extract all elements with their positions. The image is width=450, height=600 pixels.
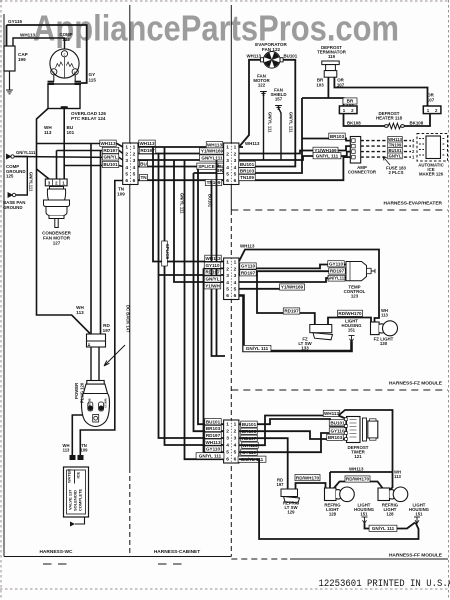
wire riser [216, 160, 218, 356]
svg-text:BU101: BU101 [206, 419, 221, 424]
svg-text:3: 3 [226, 436, 229, 442]
svg-text:4: 4 [234, 165, 237, 171]
wire Y1/WH169 FZ pin5 [239, 288, 303, 290]
svg-text:BR103: BR103 [316, 78, 324, 88]
section divider HARNESS-WC / HARNESS-CABINET [129, 5, 131, 468]
svg-text:WH113: WH113 [324, 411, 340, 416]
svg-text:4: 4 [234, 443, 237, 449]
svg-text:RD197: RD197 [241, 270, 256, 275]
wire BU101 relay down [63, 109, 65, 179]
label BR [216, 167, 223, 173]
ground (light housing 2) [414, 517, 420, 524]
label GY110 (pin2) [240, 263, 256, 269]
svg-text:COMPLETE: COMPLETE [78, 488, 83, 511]
wire BU101 to connector pin 4 [64, 166, 123, 167]
svg-text:TN109: TN109 [389, 142, 402, 147]
svg-text:5: 5 [226, 450, 229, 456]
label GN/YL [204, 276, 220, 282]
svg-text:WH113: WH113 [139, 141, 155, 146]
connector J2 (cabinet/evap) 6-pin [224, 143, 239, 185]
svg-text:3: 3 [234, 436, 237, 442]
wire RD197 FZ pin3 to temp control [239, 271, 346, 275]
label RD/WH170 [295, 475, 320, 481]
svg-text:1: 1 [226, 145, 229, 151]
label RD197 (pin3) [240, 270, 256, 276]
condenser fan motor 127 body [44, 187, 70, 228]
wire WH113 tap to water valve [72, 415, 91, 455]
label BR103 (pin2) [241, 428, 257, 434]
svg-text:3: 3 [226, 158, 229, 164]
svg-text:GN/YL111: GN/YL111 [201, 156, 223, 161]
wire BK108 heater right lead [404, 114, 430, 126]
label Y1/WH169 [279, 284, 304, 290]
svg-text:TN109: TN109 [117, 187, 125, 197]
wire BR103 from terminator [327, 77, 329, 98]
label Y1/WH [204, 283, 220, 289]
svg-text:GY110: GY110 [330, 429, 344, 434]
wire RD/WH170 light1 to light2 [334, 482, 383, 489]
svg-text:GN/YL 111: GN/YL 111 [246, 346, 269, 351]
wire TN109 connector1 pin6 to water valve [80, 181, 123, 456]
wire GN/YL111 riser to FF pin6 [185, 160, 226, 459]
wire GN/YL111 FZ pin6 to housing ground [239, 296, 352, 352]
label GN/YL 111 [243, 345, 271, 351]
relay bottom terminal [61, 106, 68, 109]
svg-text:GY110: GY110 [206, 447, 220, 452]
wire WH113 drop to power terminal box [90, 144, 92, 335]
svg-text:ICE: ICE [76, 472, 81, 479]
svg-text:5: 5 [133, 172, 136, 178]
refrig light switch 129 [281, 489, 300, 503]
svg-text:2: 2 [133, 151, 136, 157]
capacitor CAP 199 [4, 46, 15, 71]
svg-text:RD197: RD197 [277, 478, 285, 488]
svg-text:SPLICE: SPLICE [165, 244, 170, 259]
ground (fan shield) [275, 106, 282, 110]
svg-text:C: C [311, 327, 314, 332]
svg-text:M: M [74, 71, 76, 75]
relay terminal right [75, 82, 82, 84]
wire WH113 FZ pin1 to FZ light [239, 250, 379, 323]
svg-text:DEFROSTHEATER 118: DEFROSTHEATER 118 [376, 111, 403, 121]
svg-text:HARNESS-FF MODULE: HARNESS-FF MODULE [389, 553, 443, 559]
resistor defrost heater 118 [384, 123, 404, 129]
wire WH113 riser to FZ pin1 [153, 147, 225, 262]
wire GN/YL111 to AMP connector [239, 152, 350, 160]
svg-text:2: 2 [125, 151, 128, 157]
wire RD197 riser [159, 154, 226, 439]
compressor COMP 123 [50, 49, 79, 78]
label GN/YL [388, 153, 403, 159]
svg-text:4: 4 [133, 165, 136, 171]
svg-text:WH113: WH113 [104, 399, 108, 409]
svg-text:OR107: OR107 [427, 93, 435, 103]
wire GY110 FZ pin2 to temp control [239, 265, 346, 269]
svg-text:12253601 PRINTED IN U.S.A.: 12253601 PRINTED IN U.S.A. [319, 579, 450, 590]
wire BU101 row conn1 to conn2 [138, 166, 225, 168]
svg-text:NC: NC [323, 327, 329, 332]
ground (water valve) [70, 522, 75, 527]
svg-text:BU101: BU101 [284, 54, 298, 59]
label RD197 [139, 147, 155, 153]
ice maker water valve solenoid 137 [64, 455, 89, 517]
svg-text:1: 1 [234, 422, 237, 428]
label WH113 [139, 140, 155, 146]
svg-text:4: 4 [226, 165, 229, 171]
wire GY110 FF pin5 to defrost timer [239, 433, 347, 452]
svg-text:WH113: WH113 [381, 308, 389, 318]
svg-text:HARNESS-WC: HARNESS-WC [39, 549, 73, 555]
svg-text:115: 115 [89, 78, 97, 83]
svg-text:RD/WH170: RD/WH170 [346, 477, 370, 482]
svg-text:AppliancePartsPros.com: AppliancePartsPros.com [33, 8, 399, 49]
wire BU101 evap fan [239, 60, 295, 167]
label TN109 [239, 174, 255, 180]
wire WH113 loop to refrig lights [339, 410, 393, 492]
wire WH113 branch to refrig light 1 [330, 471, 393, 473]
svg-text:BU: BU [140, 161, 147, 166]
svg-text:Y1/WH169: Y1/WH169 [281, 285, 304, 290]
label TN109 [388, 142, 403, 148]
label BU101 [102, 161, 118, 167]
svg-text:GN/YL 111: GN/YL 111 [268, 112, 273, 133]
wire TN109 riser [212, 180, 226, 356]
label WH113 (pin4) [242, 442, 258, 448]
svg-text:GN/YL: GN/YL [389, 153, 402, 158]
refrig light 128 bulb 1 [325, 487, 355, 502]
svg-text:RD197: RD197 [205, 270, 220, 275]
wire WH113 conn2 pin1 to evap fan (diagonal) [239, 146, 243, 148]
label WH113 [388, 137, 403, 143]
svg-text:WH113: WH113 [388, 137, 402, 142]
svg-text:WH113: WH113 [349, 467, 364, 472]
svg-text:5: 5 [234, 172, 237, 178]
refrig light 128 bulb 2 [378, 487, 408, 502]
svg-text:GN/YL 111: GN/YL 111 [372, 526, 395, 531]
label GY110 (pin5) [241, 449, 257, 455]
connector J3 (cabinet/FZ) 6-pin [224, 258, 239, 300]
splice (BU101) [197, 163, 216, 169]
wire capacitor to ground [9, 71, 11, 90]
svg-text:6: 6 [226, 457, 229, 463]
label RD197 [283, 308, 299, 314]
FZ light 130 bulb [371, 321, 398, 336]
svg-text:GN/YL 111: GN/YL 111 [199, 453, 222, 458]
svg-text:6: 6 [133, 178, 136, 184]
wire to condenser fan pin 2 [56, 151, 58, 180]
svg-text:S: S [53, 71, 55, 75]
label BU101 [388, 148, 403, 154]
svg-text:5: 5 [234, 450, 237, 456]
base pan ground terminal [8, 193, 16, 198]
svg-text:2: 2 [226, 151, 229, 157]
wire GN/YL111 FF pin6 ground loop [239, 459, 419, 539]
svg-text:GY115: GY115 [8, 19, 22, 24]
AMP connector [350, 137, 360, 164]
svg-text:BU101: BU101 [103, 162, 118, 167]
defrost timer 121 [345, 417, 378, 443]
svg-text:WH113: WH113 [207, 142, 223, 147]
svg-text:1: 1 [133, 145, 136, 151]
section divider HARNESS-CABINET / modules [230, 5, 232, 210]
svg-text:3: 3 [125, 158, 128, 164]
svg-text:5: 5 [226, 172, 229, 178]
svg-text:WH113: WH113 [76, 305, 84, 315]
svg-text:TN: TN [140, 175, 147, 180]
svg-text:3: 3 [226, 273, 229, 279]
svg-text:RD197: RD197 [284, 309, 299, 314]
wire GN/YL111 fan motor ground [263, 92, 265, 161]
wire OR107 from terminator [334, 77, 427, 106]
svg-text:WH113: WH113 [240, 244, 255, 249]
svg-text:BR103: BR103 [330, 134, 345, 139]
wire RD/WH170 switch to refrig light 1 [296, 483, 326, 489]
wire BR103 FF pin2 to defrost timer [239, 431, 347, 439]
label WH113 [205, 439, 221, 445]
svg-text:3: 3 [234, 273, 237, 279]
label GN/YL 111 [196, 453, 224, 459]
svg-text:HARNESS-EVAP/HEATER: HARNESS-EVAP/HEATER [384, 201, 443, 207]
defrost terminator 119 symbol [322, 61, 339, 77]
defrost heater plug right 1 2 [423, 106, 441, 114]
ground (FZ light housing) [349, 336, 355, 343]
svg-text:BU101: BU101 [242, 422, 257, 427]
label GY110 [204, 262, 220, 268]
label GN/YL 111 [313, 153, 341, 159]
svg-text:2: 2 [234, 151, 237, 157]
bottom border of harness sections [4, 556, 231, 558]
svg-text:4: 4 [125, 165, 128, 171]
wire GN/YL111 comp ground [14, 157, 27, 196]
svg-text:GN/YL111: GN/YL111 [28, 172, 33, 192]
svg-text:BU101: BU101 [240, 162, 255, 167]
svg-text:GY: GY [89, 72, 96, 77]
label GY110 [328, 261, 344, 267]
label BU101 [239, 161, 255, 167]
label GN/YL111 [199, 155, 224, 161]
wire WH113 to connector pin 1 [37, 144, 123, 148]
wire GN/YL111 riser to FZ pin4 [174, 160, 225, 282]
svg-text:1: 1 [125, 145, 128, 151]
svg-text:WH113: WH113 [394, 470, 402, 480]
svg-text:DC BACK 147: DC BACK 147 [126, 305, 131, 333]
svg-text:HARNESS-FZ MODULE: HARNESS-FZ MODULE [389, 381, 443, 387]
label TN [140, 174, 148, 180]
svg-text:2: 2 [226, 429, 229, 435]
ground (capacitor) [6, 90, 13, 94]
wire GY115 into capacitor [6, 25, 8, 46]
svg-text:C: C [64, 53, 66, 57]
svg-text:HARNESS-CABINET: HARNESS-CABINET [154, 549, 200, 555]
wire TN109 conn2 pin6 to AMP connector [239, 157, 350, 180]
svg-text:6: 6 [234, 293, 237, 299]
ground (light housing 1) [362, 517, 368, 524]
wire GY110 riser FZ pin2 to FF pin5 [203, 268, 205, 452]
label BR103 [239, 168, 255, 174]
wire GN/YL111 FZ pin4 to temp control [239, 278, 346, 282]
wire BR103 row to conn2 pin5 [194, 172, 226, 174]
ground (fan motor) [260, 92, 267, 96]
label RD197 (pin3) [241, 435, 257, 441]
wire GY115 cap to relay [7, 25, 87, 83]
wire BR103 junction to heater plug [302, 98, 344, 106]
label BU101 [329, 420, 345, 426]
label BU [140, 161, 148, 167]
svg-text:GN/YL111: GN/YL111 [327, 276, 347, 281]
wire GN/YL111 row to conn2 pin3 [138, 159, 225, 161]
svg-text:1: 1 [226, 260, 229, 266]
svg-text:GY110: GY110 [329, 261, 343, 266]
svg-text:SPLICE: SPLICE [198, 164, 215, 169]
wire WH113 into timer (diagonal) [339, 416, 347, 420]
wire GN/YL to connector pin 3 [16, 157, 123, 161]
svg-text:RD197: RD197 [103, 323, 111, 333]
arrow DC BACK to cord [104, 345, 125, 366]
svg-text:GN/YL 111: GN/YL 111 [316, 153, 339, 158]
svg-text:5: 5 [125, 172, 128, 178]
relay terminal left [48, 82, 55, 84]
svg-text:BR103: BR103 [328, 435, 343, 440]
wire BK108 heater left lead [344, 114, 386, 126]
svg-text:Y1/WH169: Y1/WH169 [201, 149, 224, 154]
svg-text:GN/YL 111: GN/YL 111 [288, 112, 293, 133]
svg-text:OVERLOAD 126PTC RELAY 124: OVERLOAD 126PTC RELAY 124 [71, 111, 106, 121]
svg-text:TN109: TN109 [240, 175, 254, 180]
label GN/YL111 [327, 275, 347, 281]
icemaker pin numbers [412, 138, 415, 160]
wire BR103 conn2 pin5 up to heater [239, 98, 302, 173]
svg-text:BK108: BK108 [347, 120, 361, 125]
svg-text:3: 3 [133, 158, 136, 164]
svg-text:GY110: GY110 [241, 264, 255, 269]
svg-text:3: 3 [234, 158, 237, 164]
svg-text:WH113: WH113 [247, 54, 262, 59]
wire BU101 FF pin1 to defrost timer [239, 419, 347, 426]
wire RD197 / Y1WH169 row conn1 to conn2 [138, 153, 225, 155]
svg-text:1: 1 [234, 260, 237, 266]
label RD197 [102, 147, 118, 153]
wire WH113 riser 2 to FF pin4 [165, 147, 226, 445]
svg-text:WATER: WATER [67, 469, 72, 483]
wire valve to ground [75, 517, 85, 524]
svg-text:RD/WH170: RD/WH170 [296, 475, 320, 480]
svg-text:BR103: BR103 [206, 426, 221, 431]
svg-text:BU101: BU101 [330, 420, 345, 425]
wire WH113 evap fan [239, 60, 261, 147]
label BR 103 [343, 98, 357, 108]
label BU101 (pin1) [241, 421, 257, 427]
svg-text:BASE PANGROUND: BASE PANGROUND [3, 200, 25, 210]
svg-text:4: 4 [226, 443, 229, 449]
svg-text:WH113: WH113 [44, 125, 52, 135]
label RD/WH170 [337, 310, 362, 316]
svg-text:2: 2 [234, 429, 237, 435]
label GN/YL 111 (pin6) [238, 456, 266, 462]
label WH113 [206, 142, 222, 148]
power cord terminal box [87, 334, 106, 347]
dashed boundary HARNESS-FZ MODULE [231, 389, 448, 391]
svg-text:NO: NO [316, 327, 322, 332]
FZ light switch 133 (C NO NC) [310, 325, 333, 340]
evaporator fan symbol [261, 52, 284, 69]
label BU101 [205, 419, 221, 425]
drawing border left [3, 14, 5, 557]
svg-text:RD197: RD197 [206, 433, 221, 438]
svg-text:POWER: POWER [74, 382, 79, 399]
wire RD197 FF pin3 to refrig light switch [239, 438, 288, 489]
wire compressor M to relay [74, 75, 76, 82]
svg-text:GY110: GY110 [205, 263, 219, 268]
power plug 120 [82, 381, 110, 427]
svg-text:GN/YL: GN/YL [103, 155, 117, 160]
wire RD197 branch to FZ pin3 [159, 274, 226, 276]
svg-text:GN/YL111: GN/YL111 [16, 150, 36, 155]
svg-text:6: 6 [234, 457, 237, 463]
svg-text:WH113: WH113 [20, 33, 36, 38]
splice (rotated) on WH113 riser [162, 241, 171, 266]
wire RD/WH170 switch to FZ light [328, 318, 371, 325]
svg-text:WH113: WH113 [100, 141, 116, 146]
wire WH113 relay down to terminal box [37, 109, 91, 334]
wire to condenser fan pin 3 [37, 169, 50, 179]
wire RD197 branch to FZ light switch [257, 275, 315, 325]
svg-text:4: 4 [234, 280, 237, 286]
svg-text:BK108: BK108 [410, 120, 424, 125]
svg-text:5: 5 [234, 287, 237, 293]
wire WH113 FF pin4 riser [239, 416, 339, 446]
label Y1/WH169 [199, 148, 224, 154]
svg-text:WH113: WH113 [63, 443, 71, 453]
label RD197 [204, 269, 220, 275]
svg-text:BU101: BU101 [388, 148, 402, 153]
svg-text:5: 5 [226, 287, 229, 293]
label GY110 [329, 428, 345, 434]
svg-text:6: 6 [226, 293, 229, 299]
wire GN/YL111 housing1 to housing2 [365, 523, 416, 529]
svg-text:WH113: WH113 [205, 256, 221, 261]
label BR103 [329, 133, 345, 139]
label BR103 [205, 425, 221, 431]
label TN109 [205, 179, 221, 185]
wire BR103 branch to AMP connector [302, 139, 350, 141]
svg-text:Y1/WH169: Y1/WH169 [314, 148, 337, 153]
label RD197 [329, 268, 345, 274]
label GN/YL [102, 154, 118, 160]
svg-text:FUSE 1832 PLCS: FUSE 1832 PLCS [386, 166, 406, 176]
wire RD197 to connector pin 2 [57, 151, 123, 154]
wire Y1/WH169 to AMP connector [239, 146, 350, 153]
overload 126 / PTC relay 124 box [48, 84, 80, 109]
label Y1/WH169 [313, 147, 338, 153]
svg-text:RD197: RD197 [330, 269, 345, 274]
svg-text:GN/YL: GN/YL [205, 277, 219, 282]
svg-text:Y1/WH: Y1/WH [205, 283, 220, 288]
wire compressor S to relay [53, 75, 55, 82]
wire WH113 row conn1 to conn2 [138, 146, 225, 148]
label WH113 [100, 140, 116, 146]
wire WH113 capacitor to compressor [13, 38, 65, 50]
label WH113 [323, 410, 339, 416]
label RD197 [205, 432, 221, 438]
svg-text:1: 1 [234, 145, 237, 151]
label WH113 [205, 255, 221, 261]
wire BU101 riser to FF pin1 [198, 169, 225, 424]
label GY110 [205, 446, 221, 452]
connector J4 (cabinet/FF) 6-pin [224, 420, 239, 463]
wire TN109 row conn1 to conn2 [138, 179, 225, 181]
svg-text:4: 4 [226, 280, 229, 286]
svg-text:TN109: TN109 [207, 180, 221, 185]
